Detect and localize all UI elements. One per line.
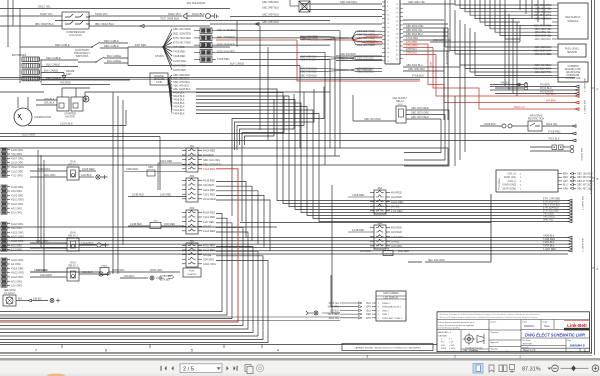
svg-text:GBC 3127 PPL: GBC 3127 PPL	[535, 71, 552, 74]
starter wires	[0, 88, 330, 102]
svg-text:Sheet 2 of 5: Sheet 2 of 5	[523, 349, 536, 352]
svg-text:P/C/S BLU: P/C/S BLU	[540, 87, 552, 90]
svg-text:BLK CABLE: BLK CABLE	[46, 63, 60, 67]
relay stack RELA	[370, 187, 404, 214]
svg-text:1-4/1H RED: 1-4/1H RED	[543, 248, 556, 251]
red wire FB1 to bottom	[0, 169, 238, 322]
svg-text:GBC 3464 BLU: GBC 3464 BLU	[406, 64, 423, 67]
svg-text:Link-Belt: Link-Belt	[567, 323, 587, 328]
svg-text:None: None	[544, 325, 550, 328]
svg-text:4774 RED: 4774 RED	[173, 46, 185, 49]
red wires to sheet1	[514, 93, 579, 110]
svg-text:41G7 ORG: 41G7 ORG	[11, 157, 24, 160]
fuse block FB2	[182, 175, 216, 202]
svg-text:SEE SHEET 1: SEE SHEET 1	[583, 100, 585, 115]
svg-text:61G2 BLK: 61G2 BLK	[192, 12, 205, 16]
svg-text:E: E	[584, 348, 586, 352]
svg-text:4G2 ORG: 4G2 ORG	[11, 244, 22, 247]
right cascade drops	[505, 10, 517, 96]
toolbar nav last button	[234, 366, 238, 371]
EXP camera LCD display U5	[328, 291, 407, 321]
mid vertical trio	[113, 92, 123, 274]
svg-text:12G BLK: 12G BLK	[81, 173, 92, 177]
svg-text:1G2 ORG: 1G2 ORG	[11, 249, 22, 252]
wire 74G1 BLK	[0, 138, 576, 142]
svg-text:STUDS: STUDS	[155, 54, 164, 58]
svg-text:DECIMAL: DECIMAL	[439, 334, 447, 337]
svg-text:GBC 3464 BLU: GBC 3464 BLU	[340, 1, 357, 4]
svg-text:G34 ORG: G34 ORG	[391, 245, 402, 248]
svg-text:41G1 RED: 41G1 RED	[203, 216, 215, 219]
toolbar two page icon	[499, 365, 507, 372]
svg-text:27NB BLU: 27NB BLU	[406, 49, 417, 51]
svg-text:IGN/P (GND): IGN/P (GND)	[503, 185, 517, 187]
svg-text:74GB RED: 74GB RED	[352, 194, 365, 197]
connector J3 stack	[1, 222, 24, 252]
svg-text:GBC 3070 RED: GBC 3070 RED	[411, 107, 429, 110]
svg-text:33G2 YEL: 33G2 YEL	[328, 303, 339, 305]
connector J2 stack	[1, 185, 24, 215]
svg-text:2: 2	[454, 355, 456, 359]
svg-text:DWG ELECT SCHEMATIC LWR: DWG ELECT SCHEMATIC LWR	[525, 333, 585, 338]
svg-text:5: 5	[191, 349, 193, 353]
vertical drops right	[455, 50, 465, 166]
svg-text:DEF SUPPLY: DEF SUPPLY	[565, 16, 581, 19]
svg-text:GRY: GRY	[563, 181, 568, 183]
svg-text:4G2 ORG: 4G2 ORG	[11, 280, 22, 283]
bottom wire bundle	[0, 214, 268, 343]
see sheet 4 text	[589, 180, 591, 195]
svg-text:11G2 ORG: 11G2 ORG	[11, 170, 23, 173]
svg-text:11G2 ORG: 11G2 ORG	[11, 162, 23, 165]
svg-text:EXP RED: EXP RED	[135, 43, 146, 47]
svg-text:8/28/2017: 8/28/2017	[524, 325, 535, 328]
svg-text:4 G2 ORG: 4 G2 ORG	[11, 175, 23, 178]
inline connector GB2	[128, 194, 186, 229]
svg-text:2 / 5: 2 / 5	[183, 367, 194, 373]
svg-text:74G4 BLK: 74G4 BLK	[173, 113, 185, 116]
svg-text:G3A1 ORG: G3A1 ORG	[203, 263, 216, 266]
svg-text:11G2 ORG: 11G2 ORG	[11, 203, 23, 206]
toolbar zoom slider	[561, 365, 589, 371]
left vertical trio	[38, 150, 44, 272]
fuse block FB0 pairs	[194, 28, 236, 62]
svg-text:4: 4	[277, 349, 279, 353]
svg-text:SPARE: SPARE	[203, 225, 212, 228]
svg-text:SPARE: SPARE	[391, 240, 400, 243]
page edge shadow	[0, 358, 600, 361]
svg-text:29TB ORG: 29TB ORG	[160, 276, 172, 278]
fuse block FB1	[182, 145, 221, 172]
wire GBC 3261 BLK	[403, 68, 444, 71]
svg-text:CUMMINS: CUMMINS	[568, 66, 579, 68]
title row	[521, 330, 590, 338]
inline connector GBA	[360, 248, 409, 256]
svg-text:33B BLK: 33B BLK	[33, 299, 43, 301]
svg-text:41G4 RED: 41G4 RED	[203, 230, 215, 233]
wire 29G2 YEL	[0, 5, 230, 9]
DEF supply relay RL4	[353, 95, 449, 166]
svg-text:RED: RED	[429, 62, 431, 67]
svg-text:BLK: BLK	[367, 310, 372, 312]
svg-text:4G6 RED: 4G6 RED	[391, 231, 402, 234]
relay stack RELB	[370, 222, 404, 249]
svg-text:RED: RED	[366, 314, 371, 316]
fuse block FB3	[182, 207, 215, 234]
svg-text:RED CABLE: RED CABLE	[104, 44, 119, 48]
oil debris sensor	[530, 145, 582, 161]
camera feed wires	[0, 275, 340, 321]
svg-text:27NC BRN: 27NC BRN	[406, 46, 418, 48]
svg-text:47GB BLK: 47GB BLK	[412, 75, 424, 78]
svg-text:SEE SHEET 3: SEE SHEET 3	[581, 196, 583, 211]
svg-text:GBC 32G ORG: GBC 32G ORG	[203, 159, 220, 162]
svg-text:27NC BRN: 27NC BRN	[367, 35, 379, 37]
svg-text:0BC 04DA BLU: 0BC 04DA BLU	[95, 22, 114, 26]
svg-text:CRANKCASE: CRANKCASE	[566, 71, 581, 74]
svg-text:1G4B RED: 1G4B RED	[352, 229, 365, 232]
svg-text:4G2 ORG: 4G2 ORG	[11, 207, 22, 210]
wires to right edge sheet3	[490, 78, 585, 95]
toolbar page input	[180, 364, 222, 373]
svg-text:GBC 4213 RED: GBC 4213 RED	[173, 28, 191, 31]
thermistor vertical	[403, 20, 448, 120]
EC level row	[521, 338, 590, 352]
svg-text:GBC 3464 YEL: GBC 3464 YEL	[408, 1, 426, 4]
wires to CN1 top	[210, 1, 382, 26]
run relay RL1	[30, 161, 108, 181]
svg-text:MODULE: MODULE	[568, 20, 579, 23]
svg-text:GBC 064A ORG: GBC 064A ORG	[406, 25, 424, 28]
svg-text:G94 ORG: G94 ORG	[203, 258, 214, 261]
svg-text:6: 6	[105, 349, 107, 353]
svg-text:SPARE: SPARE	[391, 205, 400, 208]
svg-text:PRESSURE: PRESSURE	[567, 75, 580, 77]
svg-text:SWITCHES: SWITCHES	[76, 55, 89, 58]
svg-text:41G2 ORG: 41G2 ORG	[11, 194, 24, 197]
sheet border right	[592, 0, 595, 355]
svg-text:32G ORG: 32G ORG	[44, 173, 56, 177]
svg-text:BLK CABLE: BLK CABLE	[44, 69, 58, 73]
svg-text:REL: REL	[378, 187, 383, 190]
svg-text:IGN/P (1/G): IGN/P (1/G)	[504, 177, 516, 179]
svg-text:IGN/P (COM): IGN/P (COM)	[502, 188, 516, 190]
sheet inner border bottom	[0, 345, 593, 356]
svg-text:RELAY 2: RELAY 2	[68, 235, 78, 238]
svg-text:29TA BLK: 29TA BLK	[160, 279, 171, 282]
wire bundle B1 to right arrows	[196, 89, 572, 223]
svg-text:GB2: GB2	[153, 221, 158, 223]
sheet label box	[342, 344, 433, 351]
svg-text:0941 YEL: 0941 YEL	[543, 219, 554, 222]
svg-text:BLK CABLE: BLK CABLE	[230, 62, 244, 66]
wire 47GB BLK	[0, 75, 575, 80]
svg-text:27NE BLU: 27NE BLU	[406, 53, 417, 55]
svg-text:0921 3236 RED: 0921 3236 RED	[173, 33, 191, 36]
toolbar zoom text	[522, 367, 551, 373]
svg-text:73G1 RED: 73G1 RED	[203, 193, 215, 196]
svg-text:Rev: Rev	[568, 340, 572, 342]
svg-text:REL: REL	[378, 222, 383, 225]
bowtie GBC 3234	[300, 30, 382, 47]
svg-text:74GB RED: 74GB RED	[173, 51, 186, 54]
svg-text:BLU: BLU	[563, 185, 568, 187]
svg-text:C: C	[597, 87, 599, 91]
svg-text:SEE NOTE: SEE NOTE	[4, 290, 16, 292]
svg-text:1044 RED: 1044 RED	[40, 273, 52, 277]
svg-text:GBC 2718 BLK: GBC 2718 BLK	[357, 71, 374, 74]
svg-text:RED CABLE: RED CABLE	[46, 56, 61, 60]
svg-text:——: ——	[505, 350, 509, 352]
svg-text:H1G2 ORG: H1G2 ORG	[11, 166, 24, 169]
svg-text:44G ORG: 44G ORG	[11, 190, 22, 193]
studs label	[155, 46, 164, 58]
svg-text:87TA 7324 RED: 87TA 7324 RED	[173, 37, 191, 40]
ground stud fanout	[168, 74, 191, 116]
svg-text:EC Level: EC Level	[523, 340, 532, 342]
svg-text:CARRIER ENGINE / RELAY MODULE: CARRIER ENGINE / RELAY MODULE / FUSEBLOC…	[354, 346, 421, 349]
svg-text:COIL (+): COIL (+)	[507, 174, 516, 176]
svg-text:4GA RED: 4GA RED	[391, 196, 402, 199]
svg-text:3: 3	[366, 355, 368, 359]
alternator G1	[14, 97, 51, 126]
FB2 corner joins	[216, 182, 270, 251]
svg-text:4G36 RED: 4G36 RED	[203, 180, 215, 183]
svg-text:20IL BLK: 20IL BLK	[44, 101, 55, 105]
svg-text:GBL 3046 RED: GBL 3046 RED	[535, 53, 552, 56]
svg-text:A1G6 RED: A1G6 RED	[391, 236, 404, 239]
svg-text:29G2 YEL: 29G2 YEL	[38, 5, 51, 9]
left bus verticals	[8, 0, 20, 47]
svg-text:41G2 ORG: 41G2 ORG	[11, 231, 24, 234]
wires from CN1 right	[403, 1, 455, 40]
svg-text:BLU: BLU	[367, 303, 372, 305]
svg-text:GBC 3261 BLK: GBC 3261 BLK	[408, 68, 425, 71]
right border zone letters	[592, 87, 599, 271]
svg-text:BLK CABLE: BLK CABLE	[107, 54, 121, 58]
batteries B1-B4	[12, 47, 41, 83]
svg-text:LCD DISPLAY: LCD DISPLAY	[384, 297, 399, 300]
svg-text:GBC 3046 BLU: GBC 3046 BLU	[535, 38, 552, 41]
svg-text:1G2 ORG: 1G2 ORG	[11, 285, 22, 288]
svg-text:GBC 4138 BLU: GBC 4138 BLU	[535, 18, 552, 21]
svg-text:G1G ORG: G1G ORG	[22, 133, 35, 137]
svg-text:1: 1	[519, 355, 521, 359]
bowtie GBC 3409	[300, 55, 382, 61]
wire bundle B2	[0, 236, 572, 254]
svg-text:33GB BLK: 33GB BLK	[484, 123, 496, 126]
svg-text:33G1 ORG: 33G1 ORG	[328, 314, 340, 316]
svg-text:FB2: FB2	[190, 175, 195, 178]
battery cables	[41, 56, 130, 85]
title block	[437, 312, 590, 352]
svg-text:7: 7	[35, 349, 37, 353]
nested S bundle middle	[232, 87, 324, 151]
see note block	[3, 290, 60, 306]
svg-text:1966 RED: 1966 RED	[126, 167, 138, 171]
svg-text:GBC 161A BLK: GBC 161A BLK	[577, 173, 593, 176]
wire SEC 4G6 ORG	[408, 194, 491, 262]
see sheet 1 text	[583, 100, 585, 115]
routing corner big	[0, 148, 448, 165]
connector J4 stack	[1, 258, 24, 288]
svg-text:47GB RED: 47GB RED	[548, 131, 561, 134]
svg-text:inches. The tolerance positio: inches. The tolerance position are appli…	[439, 324, 475, 327]
svg-text:RED CABLE: RED CABLE	[55, 43, 70, 47]
svg-text:61G2 VIO: 61G2 VIO	[168, 12, 181, 16]
svg-text:STUD: STUD	[156, 81, 163, 84]
svg-text:GBC 34G BLK: GBC 34G BLK	[300, 59, 317, 62]
svg-text:PWR 2: PWR 2	[382, 314, 390, 316]
svg-text:J6600M4 S: J6600M4 S	[569, 344, 584, 348]
svg-text:AIR SOLENOID: AIR SOLENOID	[187, 1, 206, 5]
svg-text:87.31%: 87.31%	[522, 367, 541, 373]
cascade bundle to DEF module	[455, 0, 520, 39]
wires to CN1 bottom	[336, 53, 460, 72]
svg-text:GND: GND	[66, 73, 72, 76]
svg-text:± .03: ± .03	[449, 342, 453, 344]
run relay RL3	[30, 262, 111, 282]
svg-text:CAD - SolidEdge: CAD - SolidEdge	[463, 349, 479, 352]
svg-text:104B RED: 104B RED	[36, 269, 48, 272]
engine ground stud	[150, 73, 168, 85]
fuel level sensor U3	[534, 44, 586, 57]
svg-text:GBC 4738 BLK: GBC 4738 BLK	[300, 75, 317, 78]
svg-text:GRN: GRN	[563, 188, 568, 190]
svg-text:1GHD RED: 1GHD RED	[173, 65, 186, 68]
svg-text:GBC 0454 BLK: GBC 0454 BLK	[262, 21, 279, 24]
red wires 27N	[403, 41, 575, 109]
svg-text:27NA BRN: 27NA BRN	[406, 41, 417, 44]
svg-text:THROTTLE: THROTTLE	[497, 178, 499, 191]
red wire 74GB top	[216, 35, 420, 81]
svg-text:SEE SHEET 3: SEE SHEET 3	[583, 78, 585, 93]
air intake restriction S3	[480, 115, 576, 132]
svg-text:74GB RED: 74GB RED	[217, 58, 230, 61]
svg-text:GBC 3074 BLK: GBC 3074 BLK	[364, 118, 381, 121]
svg-text:GBC 3070 ORG: GBC 3070 ORG	[411, 112, 429, 115]
cascade top stubs	[520, 0, 544, 26]
svg-text:BATTERIES: BATTERIES	[12, 53, 26, 57]
throttle connector CN3	[496, 170, 594, 192]
svg-text:11G2 ORG: 11G2 ORG	[11, 186, 23, 189]
svg-text:43G1 RED: 43G1 RED	[203, 189, 215, 192]
svg-text:74G3 RED: 74G3 RED	[203, 168, 215, 171]
plus terminals 74A	[490, 82, 528, 90]
taskbar orange hint	[47, 374, 81, 376]
svg-text:WHT: WHT	[366, 318, 372, 320]
wire 7007 0409 BLK	[55, 17, 330, 21]
svg-text:4G4 RED: 4G4 RED	[391, 192, 402, 195]
svg-text:7007 0409 BLK: 7007 0409 BLK	[160, 17, 179, 21]
svg-text:29TB ORG: 29TB ORG	[150, 269, 162, 272]
fuel heater U6	[30, 266, 201, 282]
svg-text:1G4B RED: 1G4B RED	[130, 223, 142, 226]
svg-text:ENGINE (LT/N): ENGINE (LT/N)	[565, 69, 581, 71]
svg-text:10G8 RED: 10G8 RED	[82, 167, 95, 171]
wire 0BC 04DA BLU	[89, 22, 210, 28]
svg-text:Material: Material	[491, 348, 499, 351]
svg-text:GBC 3814 BLU: GBC 3814 BLU	[406, 33, 423, 36]
svg-text:1043 RED: 1043 RED	[160, 194, 171, 197]
toolbar zoom out	[552, 365, 559, 372]
svg-text:GBC 9047 BLK: GBC 9047 BLK	[577, 177, 593, 179]
fuse output wires	[216, 31, 340, 60]
svg-text:4117 RED: 4117 RED	[203, 221, 215, 224]
svg-text:GBC 3457 BLU: GBC 3457 BLU	[262, 7, 279, 10]
svg-text:± .1: ± .1	[449, 339, 452, 341]
LinkBelt logo	[564, 321, 590, 331]
svg-text:RELAY: RELAY	[396, 100, 404, 103]
DEF module pins	[534, 4, 558, 41]
svg-text:1G2 ORG: 1G2 ORG	[11, 212, 22, 215]
svg-text:AP37682: AP37682	[523, 343, 533, 346]
starter motor M1	[36, 96, 89, 119]
svg-text:GBC 3454 BLK: GBC 3454 BLK	[262, 14, 279, 17]
svg-text:61G5 VIO: 61G5 VIO	[40, 12, 53, 16]
battery disconnect switches S2	[20, 39, 300, 66]
svg-text:Checked: Checked	[491, 332, 499, 334]
svg-text:A: A	[597, 267, 599, 271]
stud fanout wires	[163, 28, 191, 72]
svg-text:EXP CAMERA: EXP CAMERA	[383, 292, 398, 295]
vertical drops center	[237, 21, 340, 166]
svg-text:87TA 4517 RED: 87TA 4517 RED	[173, 42, 191, 45]
svg-text:2G1G RED: 2G1G RED	[203, 198, 216, 201]
bridge verticals	[232, 145, 242, 222]
svg-text:PWRD ANT TURN 2: PWRD ANT TURN 2	[382, 317, 403, 320]
air solenoid S1	[160, 1, 218, 19]
svg-text:4G ORG: 4G ORG	[11, 263, 21, 266]
svg-text:12G6 BLK: 12G6 BLK	[60, 122, 73, 126]
svg-text:COIL (-): COIL (-)	[508, 181, 516, 183]
run relay RL2	[30, 232, 109, 252]
svg-text:HEATER: HEATER	[188, 273, 197, 276]
svg-text:RED: RED	[563, 177, 568, 179]
toolbar copy icon	[245, 365, 253, 374]
bowtie GBC 2716	[300, 67, 382, 73]
svg-text:± .0005: ± .0005	[449, 348, 455, 350]
svg-text:± .005: ± .005	[449, 345, 454, 347]
svg-text:74GB: 74GB	[300, 37, 307, 40]
fuse feed 44GF RED	[147, 160, 182, 190]
svg-text:44G ORG: 44G ORG	[11, 227, 22, 230]
DEF supply module U2	[558, 3, 588, 39]
svg-text:20G BLK: 20G BLK	[44, 97, 55, 101]
toolbar nav next button	[227, 366, 229, 371]
svg-text:GND 2: GND 2	[382, 310, 389, 312]
svg-text:GBC 3284 RED: GBC 3284 RED	[357, 44, 375, 47]
wire 0BC 062P BLK	[0, 22, 62, 26]
svg-text:41G2 ORG: 41G2 ORG	[11, 267, 24, 270]
stack feed wires	[348, 194, 370, 232]
svg-text:GBC 3404 BLK: GBC 3404 BLK	[357, 59, 374, 62]
svg-text:——: ——	[535, 348, 539, 350]
svg-text:XXXX: XXXX	[441, 348, 447, 350]
svg-text:1GHD RED: 1GHD RED	[173, 60, 186, 63]
toolbar single page icon	[473, 364, 483, 374]
svg-text:SEE SHEET 2: SEE SHEET 2	[581, 238, 583, 253]
wire 12G6 BLK	[28, 110, 126, 126]
svg-text:SEE UPPER: SEE UPPER	[580, 148, 582, 161]
svg-text:GROUP: GROUP	[384, 253, 392, 255]
svg-text:PWRD 2: PWRD 2	[382, 303, 391, 305]
svg-text:4G54 RED: 4G54 RED	[203, 212, 215, 215]
svg-text:G31 RED: G31 RED	[360, 250, 371, 253]
svg-text:11G2 ORG: 11G2 ORG	[11, 276, 23, 279]
svg-text:1043 RED: 1043 RED	[164, 223, 175, 226]
wire GBC 3070 ORG	[430, 25, 520, 42]
